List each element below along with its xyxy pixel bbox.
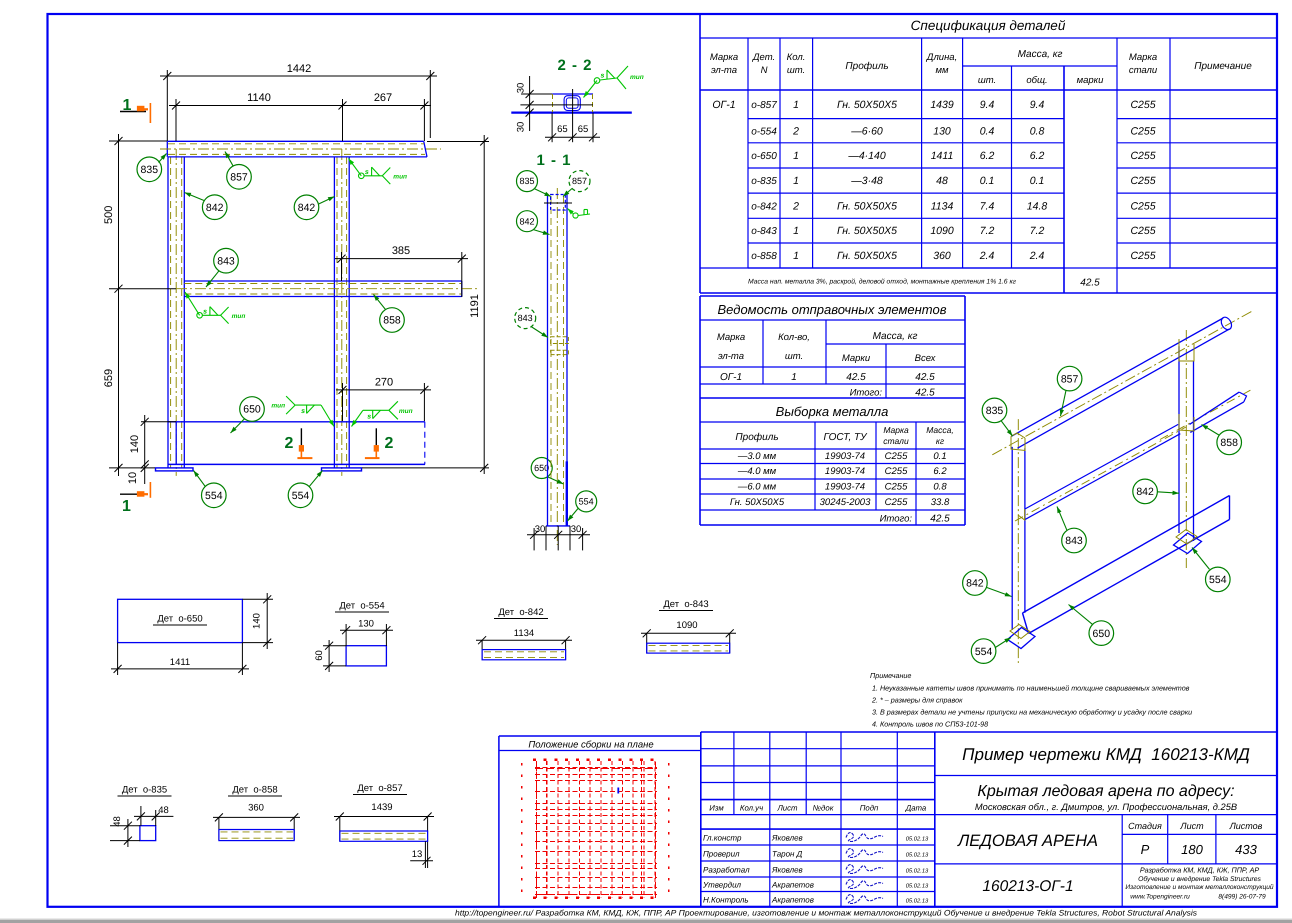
svg-text:шт.: шт.: [785, 351, 803, 362]
svg-text:тип: тип: [630, 74, 644, 81]
svg-text:857: 857: [1061, 373, 1079, 385]
svg-text:—3·48: —3·48: [850, 175, 883, 187]
svg-text:Дет о-554: Дет о-554: [339, 601, 384, 612]
svg-text:С255: С255: [885, 497, 908, 508]
svg-text:Масса, кг: Масса, кг: [873, 331, 918, 342]
svg-text:1: 1: [123, 97, 132, 114]
svg-text:7.4: 7.4: [980, 200, 995, 212]
svg-text:Длина,: Длина,: [926, 52, 957, 63]
svg-text:33.8: 33.8: [931, 497, 950, 508]
svg-text:ОГ-1: ОГ-1: [720, 372, 742, 383]
svg-text:Масса нап. металла 3%, раскрой: Масса нап. металла 3%, раскрой, деловой …: [748, 278, 1017, 286]
svg-text:1 - 1: 1 - 1: [536, 152, 571, 169]
svg-text:130: 130: [933, 125, 951, 137]
svg-text:кг: кг: [936, 436, 944, 446]
svg-text:Р: Р: [1141, 842, 1150, 857]
svg-text:842: 842: [966, 578, 984, 590]
svg-text:0.8: 0.8: [933, 482, 947, 493]
svg-text:ЛЕДОВАЯ АРЕНА: ЛЕДОВАЯ АРЕНА: [957, 832, 1098, 850]
svg-text:Н.Контроль: Н.Контроль: [703, 896, 749, 905]
svg-text:42.5: 42.5: [1080, 278, 1100, 289]
svg-text:42.5: 42.5: [915, 372, 935, 383]
svg-text:1411: 1411: [931, 150, 954, 162]
svg-text:48: 48: [112, 816, 123, 827]
svg-text:www.Topengineer.ru: www.Topengineer.ru: [1130, 894, 1190, 901]
svg-text:s: s: [203, 308, 207, 315]
svg-text:С255: С255: [1130, 99, 1155, 111]
svg-text:Гн. 50X50X5: Гн. 50X50X5: [837, 200, 897, 212]
svg-text:С255: С255: [885, 466, 908, 477]
svg-text:2. * – размеры для справок: 2. * – размеры для справок: [871, 696, 963, 705]
svg-text:Дет о-858: Дет о-858: [232, 785, 277, 796]
svg-text:360: 360: [248, 803, 264, 814]
svg-text:140: 140: [129, 435, 141, 453]
svg-text:1134: 1134: [931, 200, 954, 212]
svg-text:2: 2: [385, 435, 394, 452]
svg-text:835: 835: [986, 405, 1004, 417]
svg-text:1: 1: [791, 372, 797, 383]
svg-text:360: 360: [933, 250, 951, 262]
svg-text:Спецификация деталей: Спецификация деталей: [911, 18, 1066, 33]
svg-text:2 - 2: 2 - 2: [557, 57, 592, 74]
svg-text:6.2: 6.2: [1030, 150, 1045, 162]
svg-text:05.02.13: 05.02.13: [906, 852, 929, 859]
svg-text:о-650: о-650: [751, 151, 777, 162]
svg-text:Дата: Дата: [905, 804, 927, 813]
svg-text:№док: №док: [813, 804, 834, 813]
svg-text:Акрапетов: Акрапетов: [771, 896, 814, 905]
svg-text:С255: С255: [1130, 225, 1155, 237]
svg-text:1411: 1411: [170, 657, 190, 668]
svg-text:05.02.13: 05.02.13: [906, 898, 929, 905]
svg-text:267: 267: [374, 92, 392, 104]
svg-text:Марки: Марки: [842, 353, 871, 364]
svg-text:0.4: 0.4: [980, 125, 995, 137]
svg-text:Стадия: Стадия: [1128, 821, 1162, 831]
svg-text:Профиль: Профиль: [845, 61, 888, 72]
svg-text:С255: С255: [1130, 250, 1155, 262]
svg-text:—3.0 мм: —3.0 мм: [737, 451, 777, 462]
svg-text:60: 60: [314, 650, 325, 661]
svg-text:Выборка металла: Выборка металла: [776, 404, 889, 419]
svg-text:554: 554: [975, 646, 993, 658]
svg-text:1090: 1090: [930, 225, 954, 237]
svg-text:7.2: 7.2: [980, 225, 995, 237]
svg-text:Итого:: Итого:: [850, 388, 883, 399]
svg-text:s: s: [365, 169, 369, 176]
svg-text:Изм: Изм: [709, 804, 724, 813]
svg-text:554: 554: [1209, 574, 1227, 586]
svg-text:0.1: 0.1: [980, 175, 995, 187]
svg-text:130: 130: [358, 619, 374, 630]
svg-text:С255: С255: [1130, 150, 1155, 162]
svg-text:Масса,: Масса,: [926, 425, 954, 435]
svg-text:842: 842: [1136, 486, 1154, 498]
svg-text:8(499) 26-07-79: 8(499) 26-07-79: [1218, 894, 1266, 901]
svg-text:1: 1: [793, 150, 799, 162]
svg-text:тип: тип: [271, 403, 285, 410]
svg-text:140: 140: [252, 613, 263, 629]
svg-text:1. Неуказанные катеты швов при: 1. Неуказанные катеты швов принимать по …: [872, 684, 1190, 693]
svg-text:о-843: о-843: [751, 226, 777, 237]
svg-text:14.8: 14.8: [1027, 200, 1048, 212]
svg-text:554: 554: [292, 490, 310, 502]
svg-text:1439: 1439: [930, 99, 954, 111]
svg-text:48: 48: [936, 175, 948, 187]
svg-text:2: 2: [792, 200, 799, 212]
svg-text:1134: 1134: [514, 628, 534, 639]
svg-text:марки: марки: [1077, 75, 1105, 86]
svg-text:554: 554: [579, 497, 594, 507]
svg-text:о-835: о-835: [751, 176, 777, 187]
svg-text:30245-2003: 30245-2003: [820, 497, 871, 508]
svg-text:тип: тип: [393, 173, 407, 180]
svg-text:554: 554: [205, 490, 223, 502]
svg-text:270: 270: [375, 377, 393, 389]
svg-text:С255: С255: [885, 482, 908, 493]
svg-text:Яковлев: Яковлев: [771, 834, 803, 843]
svg-text:Лист: Лист: [1179, 821, 1204, 831]
svg-text:0.1: 0.1: [933, 451, 946, 462]
svg-text:4. Контроль швов по СП53-101-9: 4. Контроль швов по СП53-101-98: [872, 720, 988, 729]
svg-text:Положение сборки на плане: Положение сборки на плане: [528, 740, 653, 751]
svg-text:Крытая ледовая арена по адресу: Крытая ледовая арена по адресу:: [977, 783, 1234, 800]
svg-text:мм: мм: [935, 65, 949, 76]
svg-text:180: 180: [1181, 842, 1203, 857]
svg-text:835: 835: [519, 176, 534, 186]
svg-text:общ.: общ.: [1026, 75, 1047, 86]
svg-text:—6.0 мм: —6.0 мм: [737, 482, 777, 493]
svg-text:05.02.13: 05.02.13: [906, 868, 929, 875]
svg-text:Итого:: Итого:: [880, 514, 913, 525]
svg-text:Марка: Марка: [710, 52, 738, 63]
svg-text:30: 30: [535, 524, 546, 535]
svg-text:Яковлев: Яковлев: [771, 866, 803, 875]
svg-text:843: 843: [217, 255, 235, 267]
svg-text:6.2: 6.2: [933, 466, 947, 477]
svg-text:тип: тип: [232, 313, 246, 320]
svg-text:42.5: 42.5: [930, 514, 950, 525]
svg-text:Дет о-857: Дет о-857: [357, 783, 402, 794]
svg-text:http://topengineer.ru/ Разраб: http://topengineer.ru/ Разработка КМ, КМ…: [455, 909, 1197, 918]
svg-text:48: 48: [158, 805, 169, 816]
svg-text:1: 1: [793, 225, 799, 237]
svg-text:Примечание: Примечание: [1194, 61, 1252, 72]
svg-text:433: 433: [1235, 842, 1257, 857]
svg-text:Кол.: Кол.: [787, 52, 806, 63]
svg-text:1439: 1439: [371, 802, 392, 813]
svg-text:N: N: [761, 65, 768, 76]
svg-text:65: 65: [578, 124, 589, 135]
svg-text:—4.0 мм: —4.0 мм: [737, 466, 777, 477]
svg-text:857: 857: [572, 176, 587, 186]
svg-text:650: 650: [1093, 628, 1111, 640]
svg-text:Гл.констр: Гл.констр: [703, 834, 742, 843]
svg-text:2.4: 2.4: [1029, 250, 1045, 262]
svg-text:Листов: Листов: [1229, 821, 1263, 831]
svg-text:1: 1: [122, 498, 131, 515]
svg-text:30: 30: [516, 83, 527, 94]
svg-text:500: 500: [103, 206, 115, 224]
svg-text:—6·60: —6·60: [850, 125, 883, 137]
svg-text:s: s: [301, 408, 305, 415]
svg-text:Кол-во,: Кол-во,: [778, 332, 810, 343]
svg-text:С255: С255: [1130, 200, 1155, 212]
svg-text:Лист: Лист: [776, 804, 798, 813]
svg-text:стали: стали: [883, 436, 909, 446]
svg-text:1191: 1191: [469, 294, 481, 318]
svg-text:7.2: 7.2: [1030, 225, 1045, 237]
svg-text:858: 858: [1220, 437, 1238, 449]
svg-text:Дет о-842: Дет о-842: [498, 607, 543, 618]
svg-text:842: 842: [206, 202, 224, 214]
svg-text:Дет.: Дет.: [752, 52, 775, 63]
svg-text:Дет о-843: Дет о-843: [663, 599, 708, 610]
svg-text:Ведомость отправочных элементо: Ведомость отправочных элементов: [718, 302, 947, 317]
svg-text:Утвердил: Утвердил: [702, 881, 742, 890]
svg-text:857: 857: [230, 172, 248, 184]
svg-text:С255: С255: [885, 451, 908, 462]
svg-text:Обучение и внедрение Tekla St: Обучение и внедрение Tekla Structures: [1138, 876, 1261, 883]
svg-text:стали: стали: [1129, 65, 1158, 76]
svg-text:Профиль: Профиль: [735, 432, 778, 443]
svg-text:858: 858: [383, 315, 401, 327]
svg-text:С255: С255: [1130, 175, 1155, 187]
svg-text:эл-та: эл-та: [711, 65, 737, 76]
svg-text:Дет о-650: Дет о-650: [157, 614, 202, 625]
svg-text:05.02.13: 05.02.13: [906, 883, 929, 890]
svg-text:160213-ОГ-1: 160213-ОГ-1: [982, 878, 1073, 895]
svg-text:Гн. 50X50X5: Гн. 50X50X5: [730, 497, 785, 508]
svg-text:Подп: Подп: [860, 804, 879, 813]
svg-text:0.8: 0.8: [1030, 125, 1045, 137]
svg-text:Примечание: Примечание: [870, 671, 911, 680]
svg-text:843: 843: [518, 313, 533, 323]
svg-text:835: 835: [141, 164, 159, 176]
svg-text:1140: 1140: [247, 92, 271, 104]
svg-text:19903-74: 19903-74: [825, 466, 865, 477]
svg-text:Масса, кг: Масса, кг: [1018, 49, 1063, 60]
svg-text:Всех: Всех: [915, 353, 937, 364]
svg-text:С255: С255: [1130, 125, 1155, 137]
svg-text:19903-74: 19903-74: [825, 482, 865, 493]
svg-text:19903-74: 19903-74: [825, 451, 865, 462]
svg-text:650: 650: [243, 404, 261, 416]
svg-text:385: 385: [392, 245, 410, 257]
svg-text:о-858: о-858: [751, 251, 777, 262]
svg-text:842: 842: [298, 202, 316, 214]
svg-text:Тарон Д: Тарон Д: [772, 850, 803, 859]
svg-text:6.2: 6.2: [980, 150, 995, 162]
svg-text:30: 30: [516, 122, 527, 133]
svg-text:Марка: Марка: [1129, 52, 1157, 63]
svg-text:тип: тип: [399, 408, 413, 415]
svg-text:Кол.уч: Кол.уч: [740, 804, 763, 813]
svg-text:ГОСТ, ТУ: ГОСТ, ТУ: [823, 432, 868, 443]
svg-text:13: 13: [412, 849, 423, 860]
svg-text:Изготовление и монтаж металлок: Изготовление и монтаж металлоконструкций: [1125, 884, 1274, 891]
svg-text:1: 1: [793, 250, 799, 262]
svg-text:1442: 1442: [287, 63, 311, 75]
svg-text:9.4: 9.4: [1030, 99, 1045, 111]
svg-text:Пример чертежи КМД 160213-КМД: Пример чертежи КМД 160213-КМД: [962, 745, 1250, 764]
svg-text:9.4: 9.4: [980, 99, 995, 111]
svg-text:1090: 1090: [676, 620, 697, 631]
svg-text:ОГ-1: ОГ-1: [712, 99, 735, 111]
svg-text:0.1: 0.1: [1030, 175, 1045, 187]
svg-text:Гн. 50X50X5: Гн. 50X50X5: [837, 225, 897, 237]
svg-text:Разработал: Разработал: [703, 866, 750, 875]
svg-text:о-857: о-857: [751, 100, 777, 111]
svg-text:42.5: 42.5: [846, 372, 866, 383]
svg-text:2.4: 2.4: [979, 250, 995, 262]
svg-text:Разработка КМ, КМД, КЖ, ППР, А: Разработка КМ, КМД, КЖ, ППР, АР: [1140, 866, 1260, 875]
svg-text:Московская обл., г. Дмитров, у: Московская обл., г. Дмитров, ул. Професс…: [975, 802, 1237, 812]
svg-text:Гн. 50X50X5: Гн. 50X50X5: [837, 250, 897, 262]
svg-text:843: 843: [1065, 535, 1083, 547]
svg-text:Марка: Марка: [883, 425, 909, 435]
svg-text:65: 65: [557, 124, 568, 135]
svg-text:3. В размерах детали не учтены: 3. В размерах детали не учтены припуски …: [872, 708, 1192, 717]
svg-text:1: 1: [793, 99, 799, 111]
svg-text:Марка: Марка: [717, 332, 745, 343]
svg-text:10: 10: [127, 472, 139, 484]
svg-text:1: 1: [793, 175, 799, 187]
svg-text:2: 2: [285, 435, 294, 452]
svg-text:2: 2: [792, 125, 799, 137]
svg-text:эл-та: эл-та: [718, 351, 744, 362]
svg-text:842: 842: [519, 216, 534, 226]
svg-text:—4·140: —4·140: [847, 150, 886, 162]
svg-text:Проверил: Проверил: [703, 850, 740, 859]
svg-text:о-554: о-554: [751, 126, 777, 137]
svg-text:05.02.13: 05.02.13: [906, 836, 929, 843]
svg-text:659: 659: [103, 369, 115, 387]
svg-text:30: 30: [571, 524, 582, 535]
svg-text:Дет о-835: Дет о-835: [122, 785, 167, 796]
svg-text:шт.: шт.: [978, 75, 996, 86]
svg-text:s: s: [367, 413, 371, 420]
svg-text:Акрапетов: Акрапетов: [771, 881, 814, 890]
svg-text:Гн. 50X50X5: Гн. 50X50X5: [837, 99, 897, 111]
svg-text:о-842: о-842: [751, 201, 777, 212]
svg-text:s: s: [601, 73, 605, 80]
svg-text:шт.: шт.: [787, 65, 805, 76]
svg-text:42.5: 42.5: [915, 388, 935, 399]
